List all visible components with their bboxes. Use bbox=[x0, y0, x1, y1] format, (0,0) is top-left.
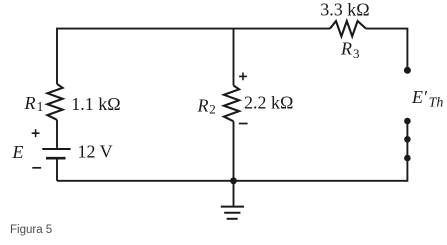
battery minus sign bbox=[32, 167, 41, 169]
svg-text:3: 3 bbox=[353, 46, 360, 61]
terminal dot right 2 bbox=[404, 136, 411, 143]
resistor R1 zigzag bbox=[47, 84, 62, 120]
resistor R2 zigzag bbox=[224, 86, 239, 122]
wire battery to bottom rail bbox=[56, 159, 58, 181]
svg-text:3.3 kΩ: 3.3 kΩ bbox=[320, 0, 369, 19]
battery E top plate bbox=[42, 148, 70, 150]
terminal dot right 1 bbox=[404, 118, 411, 125]
battery E bottom plate bbox=[46, 157, 66, 160]
svg-text:1.1 kΩ: 1.1 kΩ bbox=[71, 94, 120, 114]
ground bar 3 bbox=[227, 218, 238, 220]
svg-text:1: 1 bbox=[37, 99, 44, 114]
svg-text:E: E bbox=[12, 142, 24, 162]
ground bar 2 bbox=[224, 212, 240, 214]
svg-text:R: R bbox=[197, 96, 209, 116]
svg-text:Th: Th bbox=[429, 95, 444, 110]
svg-text:R: R bbox=[24, 93, 36, 113]
resistor R3 zigzag bbox=[330, 21, 366, 36]
svg-text:E′: E′ bbox=[411, 87, 428, 107]
svg-text:12 V: 12 V bbox=[78, 142, 113, 162]
R2 plus sign bbox=[239, 73, 247, 81]
terminal dot top right bbox=[404, 67, 411, 74]
battery plus sign bbox=[32, 129, 40, 137]
ground stub wire bbox=[233, 181, 235, 206]
junction dot bottom middle bbox=[230, 177, 237, 184]
wire top-left corner and top rail bbox=[57, 29, 330, 84]
ground bar 1 bbox=[221, 206, 244, 208]
wire R2 to bottom rail bbox=[233, 121, 235, 181]
svg-text:R: R bbox=[340, 38, 352, 58]
svg-text:Figura 5: Figura 5 bbox=[10, 224, 52, 236]
wire middle branch top bbox=[233, 29, 235, 86]
bottom rail wire and right riser bbox=[57, 121, 407, 181]
wire top-right corner down to terminal bbox=[366, 29, 407, 68]
terminal dot right 3 bbox=[404, 155, 411, 162]
svg-text:2.2 kΩ: 2.2 kΩ bbox=[244, 93, 293, 113]
R2 minus sign bbox=[239, 123, 248, 125]
svg-text:2: 2 bbox=[209, 102, 216, 117]
wire R1 to battery bbox=[56, 120, 58, 148]
